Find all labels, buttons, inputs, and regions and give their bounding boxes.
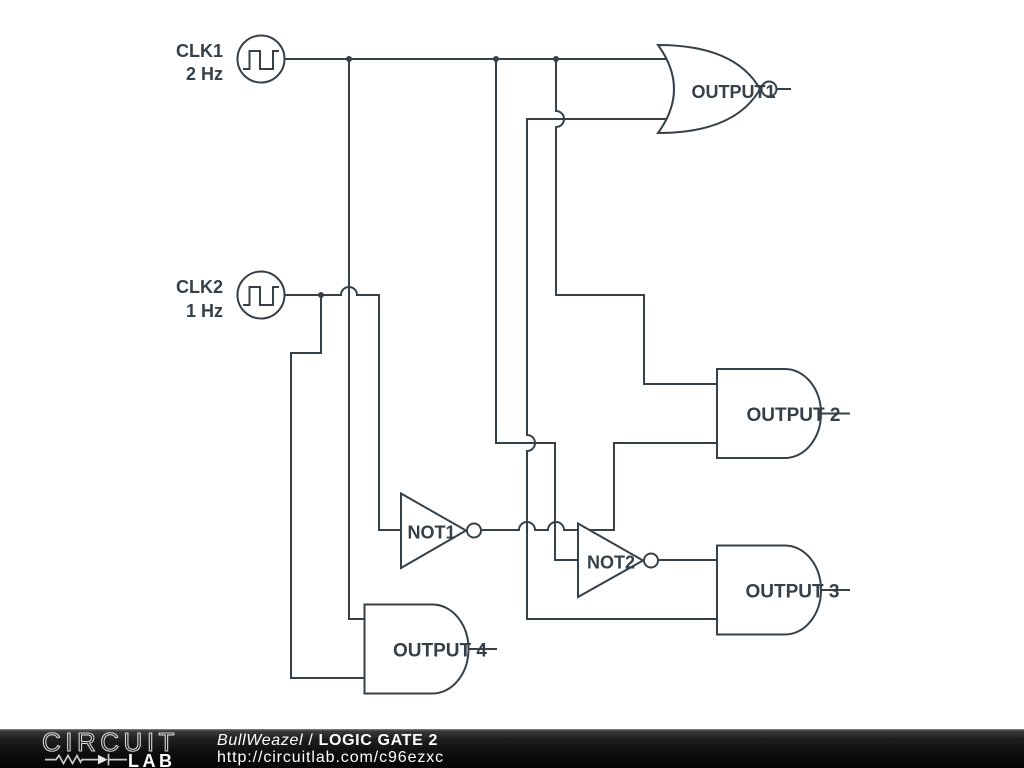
svg-text:NOT1: NOT1 [407, 523, 455, 543]
svg-text:OUTPUT1: OUTPUT1 [691, 82, 775, 102]
svg-text:CLK1: CLK1 [176, 41, 223, 61]
svg-text:OUTPUT 2: OUTPUT 2 [747, 405, 841, 426]
svg-text:OUTPUT 4: OUTPUT 4 [393, 641, 487, 662]
svg-text:CLK2: CLK2 [176, 277, 223, 297]
svg-text:OUTPUT 3: OUTPUT 3 [746, 582, 840, 603]
svg-text:2 Hz: 2 Hz [186, 64, 223, 84]
svg-text:1 Hz: 1 Hz [186, 301, 223, 321]
svg-text:NOT2: NOT2 [587, 553, 635, 573]
